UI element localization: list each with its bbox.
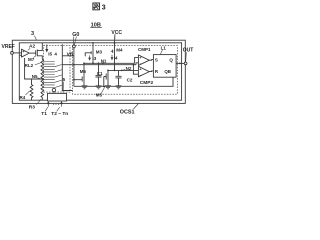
latch L1 bbox=[153, 55, 176, 78]
svg-text:QB: QB bbox=[164, 69, 171, 74]
dashed box OCS1 bbox=[73, 46, 178, 95]
trim block 5 bbox=[48, 93, 67, 101]
svg-text:CMP2: CMP2 bbox=[140, 80, 154, 86]
svg-text:Q: Q bbox=[169, 57, 173, 62]
capacitor C1 bbox=[98, 62, 100, 64]
comparator CMP2 bbox=[138, 66, 149, 76]
svg-text:4: 4 bbox=[54, 52, 57, 57]
transistor M3 bbox=[85, 43, 93, 64]
node dot N1 bbox=[102, 62, 104, 64]
wire VCC down bbox=[114, 34, 116, 43]
op-amp A2 bbox=[22, 49, 30, 57]
svg-text:C1: C1 bbox=[97, 71, 103, 76]
svg-text:N2: N2 bbox=[126, 66, 132, 71]
svg-text:M7: M7 bbox=[28, 57, 35, 62]
ground C2 bbox=[116, 86, 122, 89]
wire VR stub bbox=[62, 55, 74, 57]
wire op-amp output to M7 gate bbox=[29, 52, 36, 54]
svg-text:S: S bbox=[155, 57, 158, 62]
ground M5 bbox=[105, 86, 111, 89]
transistor M6 bbox=[83, 62, 85, 64]
svg-text:3: 3 bbox=[102, 5, 106, 12]
current source circle bbox=[52, 88, 55, 91]
svg-text:T1: T1 bbox=[41, 111, 47, 117]
node dot VCC rail bbox=[114, 42, 116, 44]
svg-text:I5: I5 bbox=[48, 52, 52, 57]
svg-text:N1: N1 bbox=[101, 58, 107, 63]
trim tap wires bbox=[44, 62, 55, 88]
svg-text:VREF: VREF bbox=[2, 44, 15, 50]
outer box 3 bbox=[12, 40, 185, 103]
trim switch arms bbox=[55, 65, 62, 88]
svg-text:M6: M6 bbox=[80, 69, 87, 74]
wire node N2 to CMP2 plus bbox=[108, 69, 138, 71]
resistor R4 (vertical zigzag) bbox=[30, 79, 33, 100]
junction dot G0/VR bbox=[73, 64, 75, 66]
capacitor C2 bbox=[116, 70, 122, 85]
current I4 arrow bbox=[111, 55, 113, 60]
svg-text:I3: I3 bbox=[93, 56, 97, 61]
wire Q to OUT bbox=[176, 62, 184, 64]
svg-text:M4: M4 bbox=[116, 48, 123, 53]
transistor M5 bbox=[107, 70, 109, 72]
svg-text:CMP1: CMP1 bbox=[138, 47, 151, 52]
wire CMP2 out to R bbox=[149, 70, 153, 73]
trim select arrows T1 T2~Tn bbox=[47, 102, 62, 107]
dashed box trimming circuit bbox=[44, 46, 71, 93]
svg-text:OUT: OUT bbox=[183, 48, 194, 54]
svg-text:5: 5 bbox=[63, 77, 66, 82]
wire VREF to op-amp bbox=[13, 52, 21, 54]
wire G0 vertical bbox=[73, 48, 75, 87]
junction dot CMP2 branch bbox=[133, 64, 135, 66]
svg-text:3: 3 bbox=[31, 31, 34, 37]
node dot N2 / M4 drain bbox=[114, 70, 116, 72]
wire CMP1 out to S bbox=[149, 59, 153, 62]
svg-text:M5: M5 bbox=[96, 93, 103, 98]
svg-text:T2 ~ Tn: T2 ~ Tn bbox=[51, 111, 68, 117]
inner box 10B bbox=[19, 43, 181, 100]
node dot M3 source on rail bbox=[92, 42, 94, 44]
trim common column bbox=[62, 44, 72, 90]
transistor M4 bbox=[111, 43, 115, 71]
transistor M7 bbox=[35, 50, 37, 55]
ground M6 bbox=[82, 86, 88, 89]
feedback wire from op-amp minus bbox=[20, 55, 43, 79]
svg-text:N5: N5 bbox=[32, 74, 38, 79]
svg-text:RL2: RL2 bbox=[25, 63, 34, 68]
ground C1 bbox=[96, 86, 102, 89]
svg-text:R3: R3 bbox=[29, 105, 35, 111]
wire QB feedback to gates bbox=[74, 77, 173, 86]
wire node N1 bbox=[84, 58, 138, 64]
svg-text:R4: R4 bbox=[20, 95, 26, 100]
terminal OUT bbox=[184, 62, 187, 65]
comparator CMP1 bbox=[138, 55, 149, 65]
svg-text:VR: VR bbox=[67, 52, 74, 58]
svg-text:I4: I4 bbox=[114, 56, 118, 61]
node N5 dot bbox=[41, 78, 43, 80]
current source I5 arrow bbox=[46, 45, 48, 52]
svg-text:C2: C2 bbox=[127, 77, 133, 82]
svg-text:M3: M3 bbox=[96, 49, 103, 54]
figure title 図3 (kanji drawn as strokes) bbox=[93, 3, 100, 10]
svg-text:L1: L1 bbox=[161, 45, 167, 50]
current I3 arrow bbox=[89, 55, 91, 60]
wire VR to CMP1 minus bbox=[62, 63, 138, 65]
svg-text:VCC: VCC bbox=[111, 30, 122, 36]
wire branch to CMP2 minus bbox=[133, 65, 138, 75]
svg-text:OCS1: OCS1 bbox=[120, 110, 135, 116]
resistor ladder RL2/R3 (vertical zigzag) bbox=[41, 60, 44, 101]
